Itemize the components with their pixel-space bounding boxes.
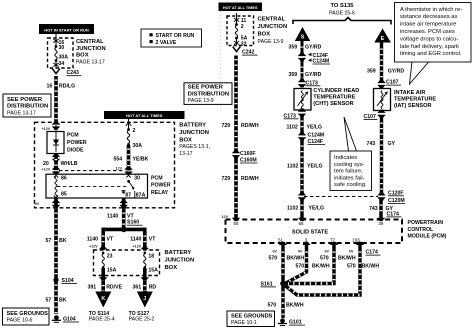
- svg-text:BK/WH: BK/WH: [287, 256, 305, 262]
- wire 1102 YE/LG (1): [287, 114, 323, 133]
- svg-text:JUNCTION: JUNCTION: [258, 24, 288, 30]
- wire 743 GY (upper): [367, 115, 396, 194]
- svg-text:PAGE 13-17: PAGE 13-17: [76, 60, 105, 66]
- power banner HOT IN START OR RUN: [39, 24, 94, 34]
- svg-text:GY/RD: GY/RD: [388, 69, 405, 75]
- svg-text:Indicates: Indicates: [334, 155, 357, 161]
- svg-text:RD/LG: RD/LG: [59, 83, 75, 89]
- IAT sensor: [374, 89, 437, 111]
- svg-text:C124M: C124M: [308, 133, 325, 139]
- svg-text:tem failure,: tem failure,: [334, 169, 363, 175]
- svg-text:BK/WH: BK/WH: [338, 256, 356, 262]
- svg-text:A thermistor in which re-: A thermistor in which re-: [400, 7, 462, 13]
- svg-text:BK/WH: BK/WH: [286, 302, 304, 308]
- svg-text:570: 570: [269, 256, 278, 262]
- svg-text:late fuel delivery, spark: late fuel delivery, spark: [400, 44, 459, 50]
- ground G104: [52, 315, 79, 322]
- svg-text:32: 32: [241, 41, 247, 47]
- battery junction box (lower, dashed): [94, 250, 160, 276]
- svg-text:BK/WH: BK/WH: [312, 263, 330, 269]
- svg-text:+12V: +12V: [133, 245, 142, 249]
- svg-text:GY/RD: GY/RD: [305, 44, 322, 50]
- svg-text:359: 359: [289, 72, 298, 78]
- svg-text:RD/WH: RD/WH: [241, 176, 259, 182]
- svg-text:intake air temperature: intake air temperature: [400, 22, 456, 28]
- svg-text:BOX: BOX: [179, 138, 192, 144]
- svg-text:timing and EGR control.: timing and EGR control.: [400, 51, 462, 57]
- ground G101: [278, 318, 305, 325]
- svg-text:WH/LB: WH/LB: [61, 161, 78, 167]
- note: indicates cooling: [330, 117, 372, 191]
- see power distribution box (right): [184, 83, 232, 105]
- svg-text:87: 87: [125, 193, 131, 199]
- svg-text:RD: RD: [149, 285, 157, 291]
- svg-text:554: 554: [114, 156, 123, 162]
- wire 1140 VT left branch: [87, 228, 114, 250]
- svg-text:0V: 0V: [35, 202, 40, 206]
- connector marks on 1102 wire: [298, 192, 306, 200]
- fuse 30 (30A) in CJB: [53, 34, 68, 68]
- svg-text:RD/VE: RD/VE: [106, 285, 122, 291]
- CHT sensor: [294, 88, 359, 110]
- fuse 23 (15A): [99, 246, 116, 274]
- svg-text:PCM: PCM: [151, 175, 163, 181]
- svg-text:HOT AT ALL TIMES: HOT AT ALL TIMES: [126, 113, 163, 118]
- ground wires 570 BK/WH from PCM: [269, 242, 305, 282]
- connector C107 (upper): [378, 80, 402, 89]
- fuse 2 (30A) in BJB: [126, 119, 142, 149]
- svg-text:PAGE 13-9: PAGE 13-9: [258, 39, 284, 45]
- svg-text:HOT AT ALL TIMES: HOT AT ALL TIMES: [223, 6, 258, 10]
- svg-text:570: 570: [296, 263, 305, 269]
- wire 570 BK/WH to ground: [268, 286, 304, 318]
- svg-text:POWERTRAIN: POWERTRAIN: [408, 220, 444, 226]
- svg-text:JUNCTION: JUNCTION: [179, 130, 209, 136]
- thermistor note box: [395, 3, 472, 85]
- wire 391 RD/VE to arrow K: [88, 268, 123, 293]
- PCM power relay K1: [46, 174, 171, 198]
- wire 1140 VT right branch: [130, 228, 156, 250]
- svg-text:57: 57: [46, 238, 52, 244]
- svg-text:359: 359: [289, 44, 298, 50]
- relay socket plane (dashed): [59, 170, 125, 172]
- legend note: start or run / 2 valve: [141, 29, 202, 47]
- svg-text:VT: VT: [149, 236, 156, 242]
- svg-text:361: 361: [133, 285, 142, 291]
- svg-text:391: 391: [88, 285, 97, 291]
- svg-text:J: J: [143, 296, 146, 302]
- off-page arrow J: [129, 292, 155, 323]
- splice S104: [53, 277, 77, 284]
- svg-text:PAGE 10-6: PAGE 10-6: [7, 318, 33, 324]
- wire 743 GY (lower) + C174: [369, 199, 402, 221]
- svg-text:HOT IN START OR RUN: HOT IN START OR RUN: [44, 28, 89, 33]
- fuse 2 (5A) in CJB right: [234, 13, 248, 47]
- svg-text:initiates fail-: initiates fail-: [334, 175, 365, 181]
- svg-text:SEE GROUNDS: SEE GROUNDS: [7, 311, 49, 317]
- svg-text:570: 570: [320, 256, 329, 262]
- svg-text:S: S: [301, 35, 305, 41]
- svg-text:15A: 15A: [148, 268, 158, 274]
- wire 1102 YE/LG (2): [287, 139, 323, 194]
- svg-text:18: 18: [148, 254, 154, 260]
- svg-text:START OR RUN: START OR RUN: [156, 33, 195, 39]
- svg-text:SEE POWER: SEE POWER: [7, 97, 43, 103]
- svg-text:DIODE: DIODE: [67, 147, 84, 153]
- svg-text:570: 570: [347, 263, 356, 269]
- svg-text:57: 57: [46, 298, 52, 304]
- svg-text:CENTRAL: CENTRAL: [258, 16, 286, 22]
- connector plane C120 (dashed): [304, 196, 378, 198]
- wire 359 GY/RD (lower): [289, 60, 322, 80]
- svg-text:(IAT) SENSOR: (IAT) SENSOR: [394, 103, 432, 109]
- svg-text:1102: 1102: [287, 163, 298, 169]
- svg-text:PCM: PCM: [67, 132, 79, 138]
- svg-text:CYLINDER HEAD: CYLINDER HEAD: [313, 88, 359, 94]
- svg-text:sistance decreases as: sistance decreases as: [400, 14, 457, 20]
- central junction box CJB (left): [48, 38, 74, 68]
- svg-text:743: 743: [369, 206, 378, 212]
- svg-text:570: 570: [268, 302, 277, 308]
- wire 729 RD/WH (upper): [222, 56, 259, 152]
- svg-text:0V: 0V: [349, 249, 354, 253]
- svg-text:POWER: POWER: [151, 183, 171, 189]
- connector C160F / C160M: [232, 150, 258, 164]
- central junction box CJB (right): [227, 16, 254, 46]
- svg-text:2: 2: [241, 24, 244, 30]
- connector C173 (lower): [284, 109, 307, 120]
- svg-text:729: 729: [222, 123, 231, 129]
- see power distribution box (left): [3, 94, 51, 117]
- svg-text:POWER: POWER: [67, 140, 87, 146]
- svg-text:87A: 87A: [136, 193, 146, 199]
- svg-text:BATTERY: BATTERY: [165, 250, 192, 256]
- svg-text:BOX: BOX: [165, 265, 178, 271]
- svg-text:SEE GROUNDS: SEE GROUNDS: [231, 313, 273, 319]
- wire 1102 YE/LG (3): [287, 199, 324, 221]
- fuse 18 (15A): [141, 246, 158, 274]
- brace: [293, 18, 391, 25]
- svg-text:1140: 1140: [87, 236, 98, 242]
- power banner HOT AT ALL TIMES (right): [219, 3, 263, 12]
- connector C120F / C120M: [378, 190, 406, 204]
- svg-text:K: K: [101, 296, 105, 302]
- svg-text:CENTRAL: CENTRAL: [76, 39, 104, 45]
- svg-text:+12V: +12V: [42, 127, 51, 131]
- svg-text:G104: G104: [63, 316, 76, 322]
- svg-text:DISTRIBUTION: DISTRIBUTION: [188, 91, 229, 97]
- svg-text:JUNCTION: JUNCTION: [76, 46, 106, 52]
- svg-text:E: E: [381, 36, 385, 42]
- off-page arrow E: [374, 29, 391, 43]
- svg-text:TEMPERATURE: TEMPERATURE: [394, 96, 436, 102]
- svg-text:39: 39: [378, 221, 384, 226]
- connector C173 (upper): [298, 79, 321, 87]
- svg-text:TEMPERATURE: TEMPERATURE: [313, 95, 355, 101]
- PCM power diode D1: [47, 125, 87, 154]
- svg-text:1102: 1102: [287, 124, 298, 130]
- svg-text:YE/LG: YE/LG: [307, 124, 323, 130]
- svg-text:PAGE 25-6: PAGE 25-6: [329, 10, 355, 16]
- svg-text:743: 743: [367, 141, 376, 147]
- svg-text:13-17: 13-17: [179, 151, 192, 157]
- svg-text:1102: 1102: [287, 206, 298, 212]
- svg-text:VT: VT: [107, 236, 114, 242]
- wire 570 from pin 3: [285, 242, 330, 284]
- svg-text:PAGES 13-1,: PAGES 13-1,: [179, 144, 210, 150]
- wire 359 GY/RD (IAT branch): [367, 43, 404, 83]
- connector C124F / C124M (upper): [298, 53, 330, 65]
- svg-text:1140: 1140: [130, 236, 141, 242]
- svg-text:C160F: C160F: [240, 151, 256, 157]
- svg-text:SOLID STATE: SOLID STATE: [292, 230, 328, 236]
- wire 570 from pin 77: [286, 242, 356, 284]
- svg-text:66: 66: [298, 221, 304, 226]
- svg-text:0V: 0V: [298, 249, 303, 253]
- wire 16 RD/LG: [47, 76, 76, 123]
- svg-text:BOX: BOX: [76, 53, 89, 59]
- svg-text:0V: 0V: [273, 249, 278, 253]
- svg-text:30A: 30A: [133, 143, 143, 149]
- svg-text:359: 359: [367, 69, 376, 75]
- svg-text:G101: G101: [289, 320, 302, 326]
- wire 57 BK (lower): [46, 282, 67, 314]
- svg-text:cooling sys-: cooling sys-: [334, 162, 365, 168]
- svg-text:15A: 15A: [107, 268, 117, 274]
- splice S160 and branch bar: [102, 227, 147, 233]
- svg-text:16: 16: [47, 83, 53, 89]
- TO S135 header: [329, 3, 355, 17]
- svg-text:1140: 1140: [107, 213, 118, 219]
- svg-text:12V: 12V: [116, 166, 123, 170]
- wire 1140 VT from relay: [107, 198, 143, 228]
- wire 20 WH/LB: [42, 154, 78, 175]
- splice S161: [261, 281, 286, 288]
- svg-text:2 VALVE: 2 VALVE: [156, 40, 177, 46]
- middle banner HOT AT ALL TIMES (left panel): [104, 111, 185, 119]
- svg-text:PAGE 13-17: PAGE 13-17: [7, 110, 36, 116]
- svg-text:30: 30: [134, 176, 140, 182]
- svg-text:increases. PCM uses: increases. PCM uses: [400, 29, 455, 35]
- svg-text:BK/WH: BK/WH: [362, 263, 380, 269]
- svg-text:JUNCTION: JUNCTION: [165, 258, 195, 264]
- svg-text:0V: 0V: [325, 249, 330, 253]
- svg-text:DISTRIBUTION: DISTRIBUTION: [7, 104, 48, 110]
- svg-text:86: 86: [61, 176, 67, 182]
- svg-text:INTAKE AIR: INTAKE AIR: [394, 90, 425, 96]
- svg-text:BOX: BOX: [258, 31, 271, 37]
- connector C243: [52, 69, 81, 77]
- svg-text:85: 85: [61, 191, 67, 197]
- svg-text:20: 20: [43, 161, 49, 167]
- svg-text:34: 34: [59, 61, 65, 67]
- svg-text:729: 729: [222, 176, 231, 182]
- svg-text:PAGE 13-9: PAGE 13-9: [188, 98, 214, 104]
- svg-text:12V: 12V: [222, 215, 229, 219]
- wire 554 YE/BK: [114, 145, 149, 175]
- svg-text:30A: 30A: [59, 55, 69, 61]
- svg-text:PAGE 25-2: PAGE 25-2: [129, 316, 155, 322]
- connector C242: [233, 47, 258, 56]
- svg-text:MODULE (PCM): MODULE (PCM): [408, 234, 447, 240]
- connector C107 (lower): [364, 110, 386, 120]
- svg-text:voltage drops to calcu-: voltage drops to calcu-: [400, 36, 458, 42]
- svg-text:+12V: +12V: [42, 168, 51, 172]
- svg-text:TO S135: TO S135: [330, 3, 354, 9]
- svg-text:PAGE 25-4: PAGE 25-4: [89, 316, 115, 322]
- off-page arrow S: [295, 27, 310, 41]
- wire 359 GY/RD (CHT branch): [289, 41, 322, 54]
- svg-text:RD/WH: RD/WH: [241, 123, 259, 129]
- panel divider: [220, 11, 222, 110]
- wire 361 RD to arrow J: [133, 268, 157, 293]
- battery junction box (left, dashed): [35, 122, 175, 208]
- connector at BJB entry (+12V): [42, 121, 61, 131]
- see grounds box (left): [3, 308, 50, 325]
- svg-text:+12V: +12V: [89, 245, 98, 249]
- see grounds box (right): [227, 311, 275, 327]
- svg-text:BATTERY: BATTERY: [179, 122, 206, 128]
- svg-text:2: 2: [133, 128, 136, 134]
- svg-text:BK: BK: [59, 238, 67, 244]
- svg-text:30: 30: [59, 45, 65, 51]
- svg-text:YE/BK: YE/BK: [133, 156, 149, 162]
- connector C124M / C124F (lower): [298, 132, 325, 145]
- svg-text:BK: BK: [59, 298, 67, 304]
- svg-text:GY: GY: [388, 141, 396, 147]
- svg-text:YE/LG: YE/LG: [309, 206, 325, 212]
- wire 570 from pin 103 + C174: [285, 242, 381, 295]
- svg-text:55: 55: [233, 221, 239, 226]
- svg-text:PAGE 10-1: PAGE 10-1: [231, 320, 257, 326]
- svg-text:CONTROL: CONTROL: [408, 227, 434, 233]
- svg-text:(CHT) SENSOR: (CHT) SENSOR: [313, 101, 353, 107]
- off-page arrow K: [89, 292, 115, 323]
- wire 729 RD/WH (lower): [222, 157, 259, 221]
- svg-text:23: 23: [107, 254, 113, 260]
- svg-text:RELAY: RELAY: [151, 190, 169, 196]
- svg-text:VT: VT: [127, 213, 134, 219]
- svg-text:safe cooling.: safe cooling.: [334, 182, 367, 188]
- svg-text:YE/LG: YE/LG: [307, 163, 323, 169]
- PCM box: [226, 220, 447, 244]
- svg-text:GY/RD: GY/RD: [305, 72, 322, 78]
- svg-text:SEE POWER: SEE POWER: [188, 85, 224, 91]
- wire 57 BK (upper): [35, 198, 67, 278]
